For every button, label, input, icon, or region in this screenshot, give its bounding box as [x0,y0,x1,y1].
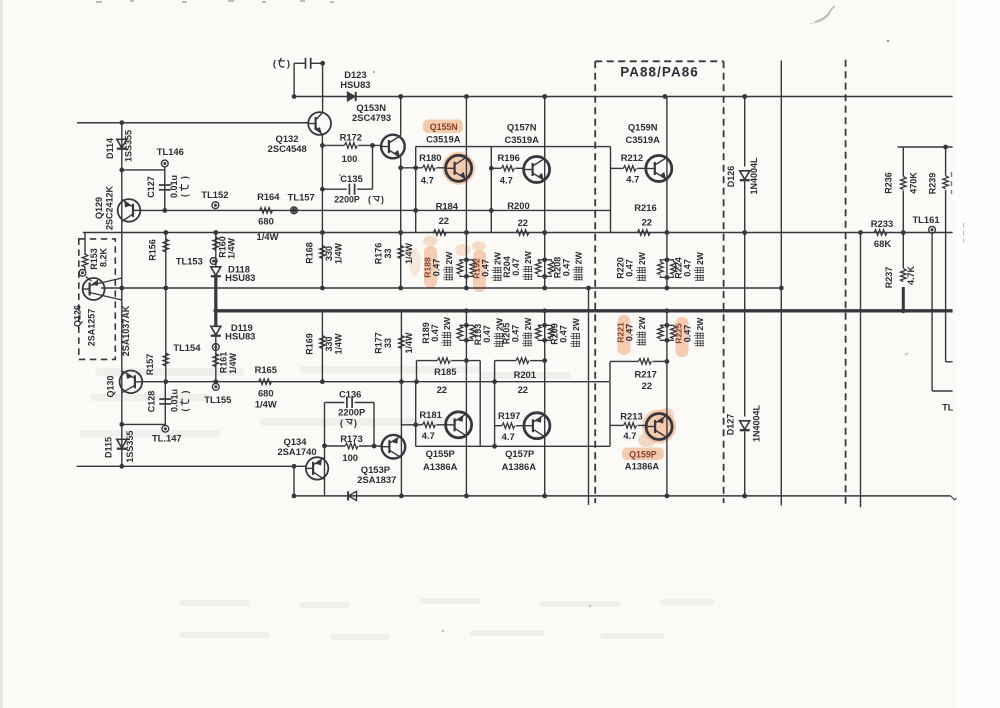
svg-text:0.47: 0.47 [559,325,569,343]
junction (322.4,189.2) [320,187,325,192]
wire: C136 loop [325,402,345,404]
svg-text:0.01u: 0.01u [169,389,179,412]
svg-text:0.47: 0.47 [683,259,693,277]
junction (494.6,381.7) [492,379,497,384]
junction (165.8,232.5) [163,230,168,235]
svg-text:4.7: 4.7 [500,175,513,186]
svg-text:4.7: 4.7 [626,174,639,185]
resistor R176 [398,246,404,259]
resistor R165 [259,379,272,385]
wire: C135 loop [322,188,347,190]
resistor R216 [637,230,650,236]
junction (744.7,232.5) [742,230,747,235]
wire: R236/R237 column [902,147,904,177]
junction (400.7,96.5) [398,94,403,99]
svg-text:4.7: 4.7 [623,430,636,441]
wire: hook at right end of bottom rail [951,496,957,500]
junction (860.5,232.5) [858,230,863,235]
transistor Q129 [118,199,141,222]
svg-text:680: 680 [258,216,274,227]
junction (401.4,381.7) [399,379,404,384]
wire: R169 column [321,311,323,382]
wire: R184 tap column [415,147,417,233]
junction (466.4,310.8) [464,308,469,313]
svg-text:R164: R164 [257,191,280,202]
wire: Q134 column [324,446,326,496]
resistor R212 [623,166,636,172]
svg-text:TL153: TL153 [176,256,203,267]
junction (466.4,495.9) [464,494,469,499]
label 2W R188 [443,251,454,281]
svg-text:33: 33 [383,248,393,258]
resistor pair R221/R225 [660,324,667,327]
svg-text:C136: C136 [339,388,361,399]
svg-text:680: 680 [258,388,274,399]
resistor R184 [433,230,446,236]
junction (322.4,288) [320,286,325,291]
resistor R156 [163,239,169,252]
svg-text:Q126: Q126 [73,305,83,327]
svg-text:68K: 68K [874,238,891,249]
svg-text:A1386A: A1386A [625,460,660,471]
highlight R192 label [473,250,486,292]
label 2W R189 [441,316,452,346]
wire: lower pair column x=466.4 [465,311,467,496]
junction (494.6,446.3) [492,444,497,449]
svg-text:): ) [381,195,384,205]
transistor Q157P [524,413,550,439]
test point TL147 [162,425,169,432]
wire: R153 feed [84,233,86,256]
svg-text:1SS355: 1SS355 [124,130,134,162]
diode D127 [740,421,750,430]
svg-text:TL146: TL146 [157,146,184,157]
junction (665,96.5) [663,94,668,99]
wire: output rail stub x=588.5 [588,288,590,505]
wire: R156/R157 column [165,233,167,382]
svg-text:R157: R157 [145,354,155,376]
svg-text:22: 22 [437,384,447,395]
highlight R221 label [618,315,631,355]
test circle at R153/Q126 [79,269,86,276]
test point TL153 [210,258,217,265]
svg-text:(: ( [180,409,190,412]
svg-text:Q159N: Q159N [628,122,658,133]
svg-text:R180: R180 [419,152,441,163]
junction (666.9,288) [665,286,670,291]
svg-text:1/4W: 1/4W [227,237,237,259]
wire: R212 line [611,167,624,169]
label 2W R224 [694,251,705,281]
label 2W R221 [636,316,647,346]
svg-text:2SA1740: 2SA1740 [277,446,316,457]
wire: Q153N/R176 column [400,97,402,136]
svg-text:): ) [180,176,190,179]
resistor R196 [501,166,514,172]
svg-text:TL157: TL157 [288,191,315,202]
svg-text:1/4W: 1/4W [333,333,343,355]
junction (415.7,424.8) [413,422,418,427]
resistor R180 [422,165,435,171]
wire: branch D114 to TL146 [122,169,165,171]
transistor Q159N [646,156,672,182]
junction (544.7,360.6) [542,358,547,363]
svg-text:TL154: TL154 [173,342,201,353]
svg-text:C135: C135 [340,173,362,184]
svg-text:Q157P: Q157P [505,448,534,459]
transistor Q155P [446,412,472,438]
svg-text:R212: R212 [621,152,643,163]
svg-text:R173: R173 [340,433,362,444]
test point TL152 [212,202,219,209]
wire: left column x=122 (D114..D115) [121,123,123,467]
svg-text:2SC4548: 2SC4548 [268,143,307,154]
wire: R185 bracket [416,361,418,382]
transistor Q157N [524,157,550,183]
svg-text:2W: 2W [442,316,452,330]
resistor R197 [502,423,515,429]
junction (466.4,232.5) [464,230,469,235]
svg-text:R217: R217 [634,368,656,379]
svg-text:TL152: TL152 [201,189,228,200]
label 2W R192 [492,251,503,281]
svg-text:4.7: 4.7 [502,431,515,442]
resistor pair R220/R224 [660,260,667,262]
wire: bottom-left rail [77,465,307,467]
dashed box PA88/PA86 left edge [594,61,596,503]
resistor pair R188/R192 [460,260,467,261]
svg-text:0.47: 0.47 [482,325,492,343]
svg-text:22: 22 [642,216,652,227]
svg-text:(: ( [368,195,371,205]
svg-text:22: 22 [518,384,528,395]
wire: bottom rail [294,495,951,497]
svg-text:0.47: 0.47 [430,324,440,342]
svg-text:2SA1037AK: 2SA1037AK [121,305,131,356]
wire: lower bridge [416,445,610,447]
resistor R200 [516,230,529,236]
junction (544.7,232.5) [542,230,547,235]
junction (400.7,167.8) [398,165,403,170]
test point TL154 [212,344,219,351]
svg-text:D115: D115 [104,437,114,458]
resistor R239 [943,176,949,189]
svg-text:R201: R201 [514,369,536,380]
svg-text:A1386A: A1386A [423,461,458,472]
svg-text:R177: R177 [373,332,383,354]
junction (121.8,288) [119,286,124,291]
svg-text:R216: R216 [634,202,656,213]
junction (744.7,495.9) [742,494,747,499]
wire: D126/D127 column [744,97,746,167]
wire: Q153N emitter to R180 [401,167,423,169]
wire: Q153P / R177 column [400,311,402,496]
wire: upper bridge [416,146,611,148]
wire: bias line y=232.5 [83,232,953,234]
svg-text:PA88/PA86: PA88/PA86 [620,65,699,80]
wire: top cap stub [293,63,295,96]
junction (945.6,147) [943,145,948,150]
svg-text:2W: 2W [695,251,705,265]
junction (903.3,232.5) [901,230,906,235]
wire: output rail B [101,287,781,289]
svg-text:D126: D126 [726,166,736,188]
svg-text:R239: R239 [928,173,938,195]
svg-text:(: ( [180,194,190,197]
resistor R168 [320,246,326,259]
highlight Q159P label [622,448,664,461]
svg-text:Q155N: Q155N [430,122,458,132]
top edge noise marks [96,1,334,2]
resistor R181 [422,422,435,428]
highlight Q159P transistor [642,410,676,444]
svg-text:2W: 2W [571,317,581,331]
junction (324.5,445.8) [322,443,327,448]
junction (491.3,210.4) [489,208,494,213]
capacitor C135 [348,184,350,195]
junction (491.3,168.3) [489,166,494,171]
junction (374,446) [372,444,377,449]
svg-text:2W: 2W [523,250,533,264]
transistor Q153P [382,435,406,459]
svg-text:R168: R168 [304,242,314,264]
wire: bias spreader column x=215.8 [215,233,217,267]
wire: R197 tap column [494,426,496,447]
test point TL155 [212,383,219,390]
wire: TL161 down bracket [931,233,933,392]
resistor pair R189/R193 [460,324,467,327]
svg-text:R156: R156 [147,239,157,261]
transistor Q155N [446,155,472,181]
wire: R196 tap column [490,147,492,233]
wire: R212 column [610,147,612,233]
junction (466.4,288) [464,286,469,291]
svg-text:(: ( [340,418,343,428]
svg-text:A1386A: A1386A [502,461,537,472]
svg-text:C127: C127 [146,176,156,198]
svg-text:): ) [180,391,190,394]
svg-text:R200: R200 [507,200,529,211]
junction (666.9,232.5) [665,230,670,235]
label 2W R209 [570,317,581,347]
svg-text:Q155P: Q155P [426,448,455,459]
wire: C128 column + TL147 link [164,382,166,426]
wire: R239 column bracket [945,147,947,176]
svg-text:): ) [354,418,357,428]
svg-text:R172: R172 [340,131,362,142]
svg-text:R181: R181 [419,409,441,420]
svg-text:33: 33 [383,338,393,348]
test point TL161 [929,226,936,233]
svg-text:HSU83: HSU83 [340,79,370,90]
wire: Q157N column [544,97,546,289]
svg-text:2200P: 2200P [338,406,365,417]
svg-text:TL155: TL155 [204,394,231,405]
resistor R185 [437,358,450,364]
wire: long vertical x=860.5 [860,233,862,508]
svg-text:Q129: Q129 [94,197,104,219]
svg-text:Q159P: Q159P [629,449,657,459]
wire: R213 tap column [609,382,611,447]
resistor R172 [344,143,357,149]
resistor R169 [320,336,326,349]
junction (416.5,381.7) [414,379,419,384]
wire: R201 bracket [494,361,496,426]
dashed box around Q126 [79,239,116,360]
junction (322.4,232.5) [320,230,325,235]
svg-text:D127: D127 [726,414,736,436]
wire: TL146/C127 column [164,167,166,210]
svg-text:D114: D114 [105,138,115,159]
wire: top supply rail [294,96,953,98]
resistor R160 [213,237,219,250]
svg-text:Q130: Q130 [105,375,115,397]
svg-text:TL: TL [942,403,953,413]
wire: R172 line [322,144,344,146]
svg-text:C128: C128 [147,391,157,413]
svg-text:R213: R213 [620,411,642,422]
junction (466.4,96.5) [464,94,469,99]
svg-text:1/4W: 1/4W [333,242,343,264]
resistor R157 [163,353,169,366]
svg-text:2200P: 2200P [334,195,360,205]
junction (544.7,288) [542,286,547,291]
svg-text:2W: 2W [695,317,705,331]
junction (903.3,310.8) [901,308,906,313]
wire: R196 line [491,167,501,169]
wire: bottom-left rail link [293,466,295,496]
svg-text:2W: 2W [637,316,647,330]
junction (400.7,288) [398,286,403,291]
diode D114 [117,139,127,148]
svg-text:): ) [287,59,290,70]
junction (544.7,495.9) [542,494,547,499]
wire: R197 line [495,425,502,427]
svg-text:22: 22 [518,217,528,228]
junction (400.7,232.5) [398,230,403,235]
svg-text:1/4W: 1/4W [255,398,277,409]
label 2W R204 [522,250,533,280]
wire: lower pair column x=666.9 [666,311,668,496]
svg-text:R165: R165 [255,364,277,375]
capacitor C127 [159,184,171,186]
label 2W R205 [522,317,533,347]
junction (165.8,381.7) [163,379,168,384]
svg-text:2SC2412K: 2SC2412K [104,185,114,230]
svg-text:100: 100 [342,452,358,463]
svg-text:2W: 2W [523,317,533,331]
junction (294,210.4) [292,208,297,213]
resistor R237 [901,269,907,282]
junction (121.8,466.3) [119,464,124,469]
diode D123 [347,92,355,101]
svg-text:0.47: 0.47 [683,325,693,343]
svg-text:22: 22 [642,380,652,391]
svg-text:R169: R169 [304,333,314,355]
junction (294.1,96.5) [292,94,297,99]
svg-text:C3519A: C3519A [625,134,660,145]
label 2W R193 [494,317,505,347]
wire: Q155N collector/emitter column [465,97,467,289]
wire: upper-left rail to Q132 base [77,122,308,124]
svg-text:C3519A: C3519A [504,134,539,145]
wire: lower pair column x=544.7 [544,311,546,496]
junction (165.8,288) [163,286,168,291]
svg-text:R176: R176 [373,243,383,265]
test point TL157 [291,207,298,214]
diode on bottom rail [349,491,357,500]
svg-text:100: 100 [342,153,358,164]
transistor Q134 [306,457,328,479]
dashed box PA88/PA86 top edge [595,60,723,62]
junction (588.5,288) [586,286,591,291]
wire: R181 line [401,424,423,426]
svg-text:0.47: 0.47 [511,258,521,276]
junction (666.9,310.8) [665,308,670,313]
svg-text:C3519A: C3519A [426,134,461,145]
svg-text:Q157N: Q157N [507,122,537,133]
svg-text:0.47: 0.47 [511,325,521,343]
junction (744.7,96.5) [742,94,747,99]
junction (372.5,145.4) [370,143,375,148]
svg-text:4.7K: 4.7K [906,265,916,285]
svg-text:R185: R185 [434,366,456,377]
svg-text:22: 22 [439,215,449,226]
wire: R181 tap column [415,382,417,447]
junction (121.8,424.4) [119,422,124,427]
svg-text:R184: R184 [436,200,459,211]
junction (215.8,232.5) [213,230,218,235]
wire: Q132 collector column [322,63,324,112]
svg-text:2W: 2W [444,251,454,265]
svg-text:1/4W: 1/4W [228,352,238,374]
highlight Q155N transistor [442,152,475,185]
svg-text:R236: R236 [884,172,894,194]
wire: R236/R239 top link [898,146,953,148]
svg-text:4.7: 4.7 [422,430,435,441]
wire: Q132 emitter / R168 column [321,135,323,288]
capacitor C136 [346,397,348,408]
junction (121.8,169.9) [119,168,124,173]
wire: lower drive line [142,381,609,383]
svg-text:0.47: 0.47 [625,324,635,342]
highlight R188 label [424,246,437,288]
junction (121.8,122.7) [119,120,124,125]
diode D115 [117,439,127,448]
wire: R213 line [610,424,624,426]
junction (415.7,210.4) [413,208,418,213]
svg-text:2SA1837: 2SA1837 [357,474,396,485]
svg-text:0.47: 0.47 [432,259,442,277]
wire: R185 jog down to bridge [479,361,481,447]
svg-text:1/4W: 1/4W [404,242,414,264]
transistor Q132 [308,112,331,135]
svg-text:4.7: 4.7 [421,175,434,186]
resistor pair R205/R209 [538,324,545,327]
junction (322.4,381.7) [320,379,325,384]
junction (466.4,360.6) [464,358,469,363]
junction (322.4,145.4) [320,143,325,148]
svg-text:R153: R153 [89,248,99,270]
transistor Q159P [646,414,672,440]
label 2W R208 [573,251,584,281]
svg-text:0.47: 0.47 [625,259,635,277]
highlight R225 label [676,317,689,357]
label 2W R225 [694,317,705,347]
svg-text:HSU83: HSU83 [225,272,255,283]
junction (164.8,210.4) [162,208,167,213]
junction (544.7,96.5) [542,94,547,99]
